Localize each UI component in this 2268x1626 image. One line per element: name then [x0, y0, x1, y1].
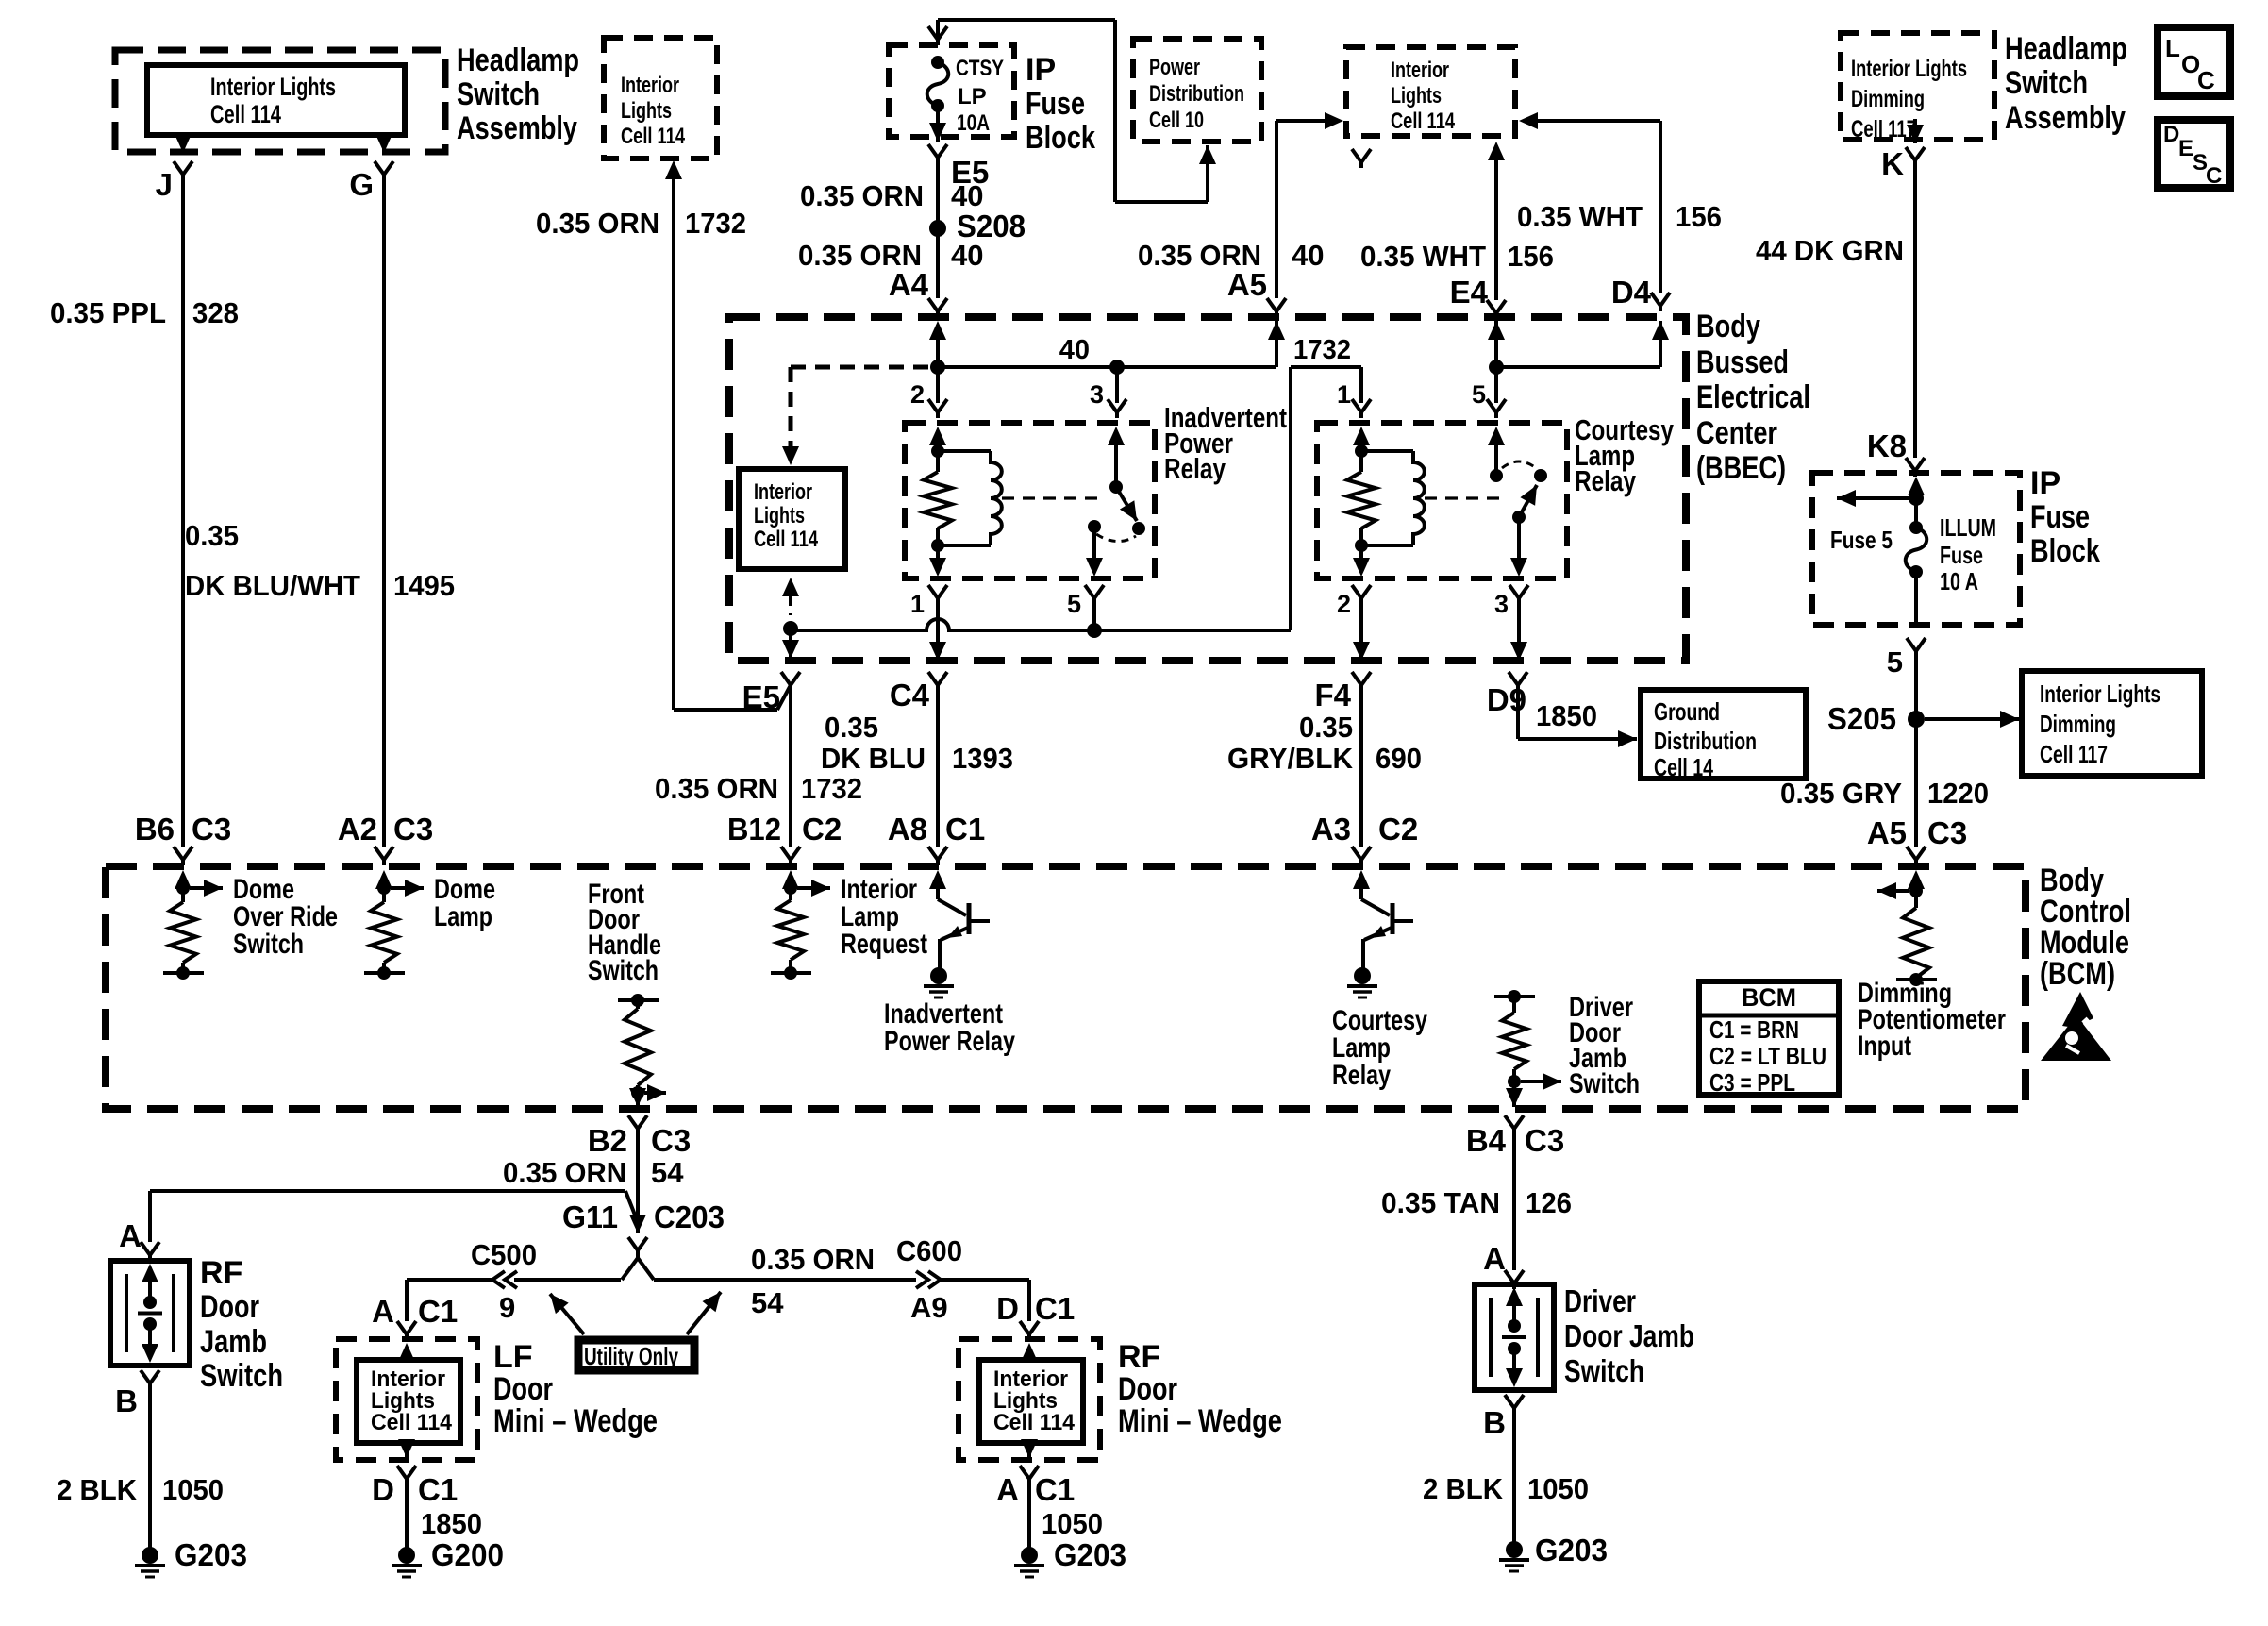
- svg-text:C3: C3: [1525, 1123, 1564, 1158]
- svg-text:Switch: Switch: [200, 1358, 283, 1394]
- svg-text:C3 = PPL: C3 = PPL: [1709, 1068, 1795, 1097]
- svg-text:40: 40: [1059, 335, 1090, 365]
- svg-text:A: A: [372, 1294, 394, 1329]
- svg-text:Cell 114: Cell 114: [1391, 109, 1455, 134]
- svg-text:Relay: Relay: [1332, 1060, 1391, 1091]
- svg-text:Block: Block: [1026, 120, 1095, 156]
- svg-text:E: E: [2178, 136, 2193, 161]
- svg-text:2: 2: [1337, 590, 1351, 618]
- svg-text:Switch: Switch: [233, 929, 304, 960]
- svg-text:Cell 114: Cell 114: [371, 1410, 453, 1435]
- svg-text:40: 40: [951, 239, 983, 272]
- svg-text:Cell 114: Cell 114: [754, 527, 818, 552]
- svg-text:D4: D4: [1611, 275, 1652, 310]
- svg-text:G200: G200: [431, 1537, 504, 1572]
- svg-text:C1: C1: [418, 1294, 458, 1329]
- svg-text:C3: C3: [1927, 815, 1967, 850]
- svg-text:Fuse: Fuse: [2030, 499, 2090, 535]
- svg-text:1: 1: [1337, 380, 1351, 409]
- svg-text:0.35 WHT: 0.35 WHT: [1360, 240, 1486, 273]
- svg-text:B: B: [115, 1383, 138, 1418]
- svg-text:Interior Lights: Interior Lights: [1851, 56, 1967, 82]
- svg-text:A4: A4: [889, 267, 929, 302]
- svg-text:(BCM): (BCM): [2040, 956, 2115, 992]
- svg-text:GRY/BLK: GRY/BLK: [1227, 742, 1354, 775]
- svg-text:C4: C4: [890, 678, 930, 712]
- svg-text:A: A: [119, 1218, 142, 1253]
- svg-text:Cell 10: Cell 10: [1149, 108, 1204, 133]
- svg-text:Center: Center: [1696, 415, 1777, 451]
- svg-text:1220: 1220: [1927, 777, 1989, 810]
- svg-text:C2 = LT BLU: C2 = LT BLU: [1709, 1042, 1826, 1070]
- svg-text:A3: A3: [1311, 812, 1351, 847]
- svg-text:J: J: [156, 167, 173, 202]
- svg-text:Bussed: Bussed: [1696, 344, 1789, 380]
- svg-text:Ground: Ground: [1654, 697, 1720, 726]
- svg-text:Block: Block: [2030, 533, 2100, 569]
- svg-text:Interior: Interior: [621, 73, 679, 98]
- svg-text:G11: G11: [562, 1199, 618, 1234]
- svg-text:2 BLK: 2 BLK: [1423, 1472, 1504, 1505]
- svg-text:C1: C1: [945, 812, 985, 847]
- svg-text:Cell 14: Cell 14: [1654, 753, 1713, 781]
- svg-text:IP: IP: [1026, 52, 1056, 88]
- svg-text:Switch: Switch: [457, 76, 540, 112]
- svg-text:A8: A8: [888, 812, 927, 847]
- svg-text:126: 126: [1526, 1186, 1572, 1219]
- svg-text:1732: 1732: [685, 207, 746, 240]
- svg-text:Switch: Switch: [1569, 1068, 1640, 1099]
- svg-text:1850: 1850: [1536, 699, 1597, 732]
- svg-text:Dimming: Dimming: [2040, 710, 2116, 738]
- svg-text:Distribution: Distribution: [1149, 81, 1244, 107]
- svg-text:D: D: [372, 1472, 394, 1507]
- svg-text:Power Relay: Power Relay: [884, 1026, 1015, 1057]
- svg-text:Distribution: Distribution: [1654, 727, 1757, 755]
- svg-text:Assembly: Assembly: [457, 110, 577, 146]
- svg-text:0.35 ORN: 0.35 ORN: [536, 207, 659, 240]
- svg-text:2: 2: [910, 380, 925, 409]
- svg-text:Fuse: Fuse: [1026, 86, 1085, 122]
- svg-text:E4: E4: [1450, 275, 1489, 310]
- svg-text:1050: 1050: [162, 1473, 224, 1506]
- svg-text:B2: B2: [588, 1123, 627, 1158]
- svg-text:Assembly: Assembly: [2005, 100, 2126, 136]
- svg-text:LP: LP: [958, 84, 987, 109]
- svg-text:A5: A5: [1227, 267, 1267, 302]
- svg-text:Door: Door: [200, 1289, 259, 1325]
- svg-text:1850: 1850: [421, 1507, 482, 1540]
- svg-text:1732: 1732: [801, 772, 862, 805]
- svg-text:B4: B4: [1466, 1123, 1507, 1158]
- svg-text:3: 3: [1090, 380, 1104, 409]
- svg-text:0.35 GRY: 0.35 GRY: [1780, 777, 1902, 810]
- svg-text:Interior: Interior: [1391, 58, 1449, 83]
- svg-text:Cell 114: Cell 114: [621, 124, 685, 149]
- svg-text:(BBEC): (BBEC): [1696, 450, 1786, 486]
- svg-text:40: 40: [951, 179, 983, 212]
- svg-text:F4: F4: [1314, 678, 1351, 712]
- svg-text:Cell 117: Cell 117: [1851, 116, 1916, 142]
- svg-text:D9: D9: [1487, 682, 1526, 717]
- svg-text:44 DK GRN: 44 DK GRN: [1756, 234, 1904, 267]
- svg-text:CTSY: CTSY: [956, 56, 1004, 81]
- svg-text:C203: C203: [654, 1199, 725, 1234]
- svg-text:0.35 WHT: 0.35 WHT: [1517, 200, 1643, 233]
- svg-text:1732: 1732: [1293, 335, 1351, 365]
- svg-text:Lamp: Lamp: [434, 901, 492, 932]
- svg-text:G: G: [349, 167, 374, 202]
- svg-text:54: 54: [651, 1156, 684, 1189]
- svg-text:Mini – Wedge: Mini – Wedge: [1118, 1403, 1282, 1439]
- svg-text:Fuse: Fuse: [1940, 541, 1983, 569]
- svg-text:1050: 1050: [1042, 1507, 1103, 1540]
- svg-text:54: 54: [751, 1286, 784, 1319]
- svg-text:Cell 114: Cell 114: [210, 100, 281, 128]
- svg-text:0.35: 0.35: [1299, 711, 1353, 744]
- svg-text:C1: C1: [1035, 1291, 1075, 1326]
- svg-text:ILLUM: ILLUM: [1940, 513, 1996, 542]
- svg-text:10 A: 10 A: [1940, 567, 1978, 595]
- svg-text:G203: G203: [1535, 1533, 1608, 1567]
- svg-text:B12: B12: [727, 812, 781, 847]
- svg-text:328: 328: [192, 296, 239, 329]
- svg-text:Dimming: Dimming: [1851, 86, 1925, 112]
- svg-text:Cell 114: Cell 114: [993, 1410, 1076, 1435]
- svg-text:A5: A5: [1867, 815, 1907, 850]
- svg-text:DK BLU/WHT: DK BLU/WHT: [185, 569, 360, 602]
- svg-text:C1: C1: [418, 1472, 458, 1507]
- svg-text:Fuse 5: Fuse 5: [1830, 526, 1893, 554]
- svg-text:9: 9: [499, 1291, 515, 1324]
- svg-text:690: 690: [1376, 742, 1422, 775]
- svg-text:1393: 1393: [952, 742, 1013, 775]
- svg-text:0.35 ORN: 0.35 ORN: [655, 772, 778, 805]
- svg-text:D: D: [996, 1291, 1019, 1326]
- svg-text:Body: Body: [1696, 309, 1760, 344]
- svg-text:G203: G203: [1054, 1537, 1126, 1572]
- svg-text:Interior Lights: Interior Lights: [2040, 679, 2160, 708]
- svg-text:10A: 10A: [957, 110, 990, 136]
- svg-text:C: C: [2197, 66, 2215, 94]
- svg-text:5: 5: [1887, 645, 1903, 679]
- svg-text:Lights: Lights: [1391, 83, 1442, 109]
- svg-text:Door Jamb: Door Jamb: [1564, 1318, 1694, 1353]
- svg-text:Electrical: Electrical: [1696, 379, 1810, 415]
- svg-text:Power: Power: [1149, 55, 1200, 80]
- svg-text:Mini – Wedge: Mini – Wedge: [493, 1403, 658, 1439]
- svg-text:C600: C600: [896, 1234, 962, 1267]
- svg-text:1495: 1495: [393, 569, 455, 602]
- svg-text:RF: RF: [200, 1255, 242, 1291]
- svg-text:Switch: Switch: [1564, 1353, 1644, 1388]
- svg-text:Relay: Relay: [1575, 464, 1637, 497]
- svg-text:Headlamp: Headlamp: [457, 42, 579, 78]
- svg-text:C: C: [2206, 163, 2222, 189]
- svg-text:156: 156: [1676, 200, 1722, 233]
- svg-text:Door: Door: [493, 1371, 553, 1407]
- svg-text:0.35: 0.35: [825, 711, 878, 744]
- svg-text:A: A: [996, 1472, 1019, 1507]
- svg-text:BCM: BCM: [1742, 983, 1796, 1012]
- svg-text:Interior Lights: Interior Lights: [210, 73, 336, 101]
- svg-text:A2: A2: [338, 812, 377, 847]
- svg-text:C2: C2: [802, 812, 842, 847]
- svg-text:A9: A9: [910, 1291, 948, 1324]
- svg-text:40: 40: [1292, 239, 1324, 272]
- svg-text:E5: E5: [742, 679, 780, 714]
- svg-text:K8: K8: [1867, 428, 1907, 463]
- svg-text:Interior: Interior: [754, 479, 812, 505]
- svg-text:Driver: Driver: [1564, 1283, 1636, 1318]
- svg-text:5: 5: [1067, 590, 1081, 618]
- svg-text:Switch: Switch: [2005, 65, 2088, 101]
- svg-text:B6: B6: [135, 812, 175, 847]
- svg-text:Lights: Lights: [621, 98, 672, 124]
- svg-text:Lights: Lights: [754, 503, 805, 528]
- svg-text:IP: IP: [2030, 465, 2060, 501]
- svg-text:0.35 ORN: 0.35 ORN: [751, 1243, 875, 1276]
- svg-text:5: 5: [1472, 380, 1486, 409]
- svg-text:Headlamp: Headlamp: [2005, 31, 2127, 67]
- svg-text:0.35 TAN: 0.35 TAN: [1381, 1186, 1500, 1219]
- svg-text:2 BLK: 2 BLK: [57, 1473, 138, 1506]
- svg-text:0.35: 0.35: [185, 519, 239, 552]
- svg-text:Cell 117: Cell 117: [2040, 740, 2108, 768]
- svg-text:LF: LF: [493, 1339, 533, 1375]
- svg-text:Input: Input: [1858, 1031, 1911, 1062]
- svg-text:Switch: Switch: [588, 955, 659, 986]
- svg-text:S205: S205: [1827, 701, 1896, 736]
- svg-text:Relay: Relay: [1164, 452, 1226, 485]
- svg-text:G203: G203: [175, 1537, 247, 1572]
- svg-text:RF: RF: [1118, 1339, 1160, 1375]
- svg-text:Door: Door: [1118, 1371, 1177, 1407]
- svg-text:C3: C3: [192, 812, 231, 847]
- svg-text:K: K: [1881, 146, 1904, 181]
- svg-text:0.35 ORN: 0.35 ORN: [503, 1156, 626, 1189]
- svg-text:DK BLU: DK BLU: [821, 742, 926, 775]
- svg-text:Utility Only: Utility Only: [584, 1342, 678, 1370]
- svg-text:C3: C3: [651, 1123, 691, 1158]
- svg-text:C1: C1: [1035, 1472, 1075, 1507]
- svg-text:D: D: [2163, 122, 2179, 147]
- svg-text:1: 1: [910, 590, 925, 618]
- svg-text:L: L: [2165, 34, 2180, 62]
- svg-text:0.35 ORN: 0.35 ORN: [800, 179, 924, 212]
- svg-text:C500: C500: [471, 1238, 537, 1271]
- svg-text:1050: 1050: [1527, 1472, 1589, 1505]
- svg-text:A: A: [1483, 1241, 1506, 1276]
- svg-text:Jamb: Jamb: [200, 1324, 267, 1360]
- svg-text:B: B: [1483, 1405, 1506, 1440]
- svg-text:156: 156: [1508, 240, 1554, 273]
- svg-text:C1 = BRN: C1 = BRN: [1709, 1015, 1799, 1044]
- svg-text:3: 3: [1494, 590, 1509, 618]
- svg-text:C3: C3: [393, 812, 433, 847]
- svg-text:0.35 PPL: 0.35 PPL: [50, 296, 166, 329]
- svg-text:C2: C2: [1378, 812, 1418, 847]
- svg-text:Request: Request: [841, 929, 927, 960]
